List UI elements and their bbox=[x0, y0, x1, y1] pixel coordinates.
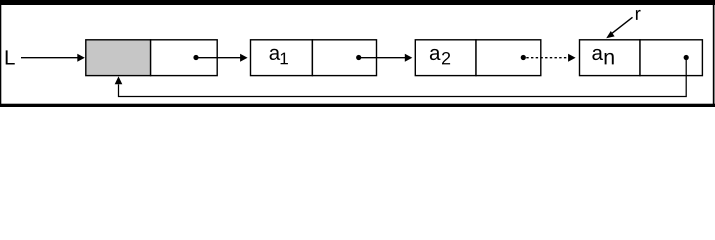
label an bbox=[592, 49, 603, 60]
node1 pointer cell bbox=[151, 40, 218, 76]
arrowhead up into node1 bottom bbox=[115, 76, 123, 84]
frame top border bbox=[0, 0, 715, 5]
wire: node2 to node3 bbox=[359, 57, 406, 59]
arrowhead of r onto node4 top edge bbox=[606, 31, 614, 38]
arrowhead into node1 bbox=[77, 54, 85, 62]
arrowhead into node4 bbox=[568, 54, 576, 62]
wire: r to node4 top bbox=[612, 17, 633, 33]
wire: L to node1 bbox=[21, 57, 78, 59]
label a2 subscript 2 bbox=[442, 52, 450, 64]
node1 pointer dot bbox=[193, 55, 198, 60]
circular return wire: from node4 dot down, left under, up into node1 bbox=[119, 58, 687, 97]
node2 pointer cell bbox=[312, 40, 376, 76]
node4 pointer cell bbox=[640, 40, 702, 76]
node4 data cell bbox=[580, 40, 641, 76]
node1 header cell (gray) bbox=[86, 40, 151, 76]
node2 data cell bbox=[251, 40, 313, 76]
label r (rear pointer) bbox=[636, 10, 641, 20]
frame left border bbox=[0, 0, 1, 107]
label a2 bbox=[430, 49, 441, 60]
label a1 subscript 1 bbox=[281, 53, 288, 65]
label L (head pointer) bbox=[6, 50, 15, 64]
node4 pointer dot bbox=[684, 55, 689, 60]
dashed wire: node3 to node4 bbox=[526, 57, 568, 59]
node3 data cell bbox=[415, 40, 476, 76]
frame right border bbox=[713, 0, 715, 107]
node3 pointer dot bbox=[521, 55, 526, 60]
wire: node1 to node2 bbox=[196, 57, 241, 59]
arrowhead into node3 bbox=[405, 54, 413, 62]
arrowhead into node2 bbox=[240, 54, 248, 62]
label an subscript n bbox=[605, 53, 614, 65]
node2 pointer dot bbox=[356, 55, 361, 60]
node3 pointer cell bbox=[476, 40, 541, 76]
frame bottom border bbox=[0, 104, 715, 107]
label a1 bbox=[270, 49, 281, 60]
